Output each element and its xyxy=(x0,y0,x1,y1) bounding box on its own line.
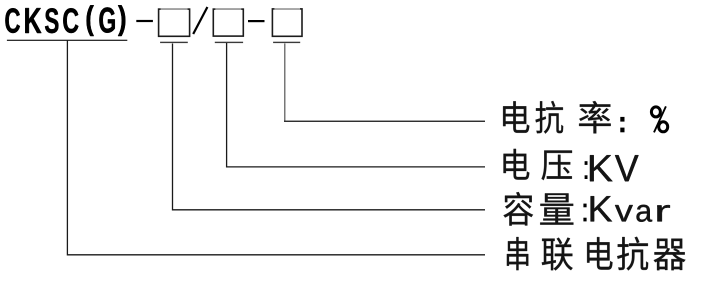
label text 串联电抗器 xyxy=(507,237,686,271)
percent sign xyxy=(651,106,667,132)
slash between box 1 and box 2 xyxy=(193,7,207,34)
hyphen between box 2 and box 3 xyxy=(248,20,265,22)
box 1 (capacity code) xyxy=(159,9,190,36)
connector horizontal to label 电抗率 xyxy=(284,121,485,122)
underline under CKSC(G) xyxy=(7,40,127,41)
label text 电压 xyxy=(504,149,573,180)
colon after 容量 xyxy=(583,204,586,208)
hyphen after CKSC(G) xyxy=(136,20,153,22)
label text KV xyxy=(590,155,639,181)
T-bar under box 1 xyxy=(160,42,188,43)
connector from box 2 to label 电压 xyxy=(227,43,485,167)
connector vertical from box 3 xyxy=(284,43,286,121)
label text 容量 xyxy=(504,192,574,226)
box 2 (voltage code) xyxy=(213,9,243,36)
label text 电抗率 xyxy=(503,101,611,134)
connector from CKSC(G) to label 串联电抗器 xyxy=(67,40,485,255)
box 3 (reactance-rate code) xyxy=(272,9,302,36)
label text Kvar xyxy=(591,196,670,222)
T-bar under box 2 xyxy=(215,42,243,43)
model text CKSC(G) xyxy=(5,5,125,36)
fullwidth colon after 电抗率 xyxy=(620,117,624,122)
connector from box 1 to label 容量 xyxy=(173,44,486,210)
colon after 电压 xyxy=(585,161,588,165)
T-bar under box 3 xyxy=(273,42,300,43)
